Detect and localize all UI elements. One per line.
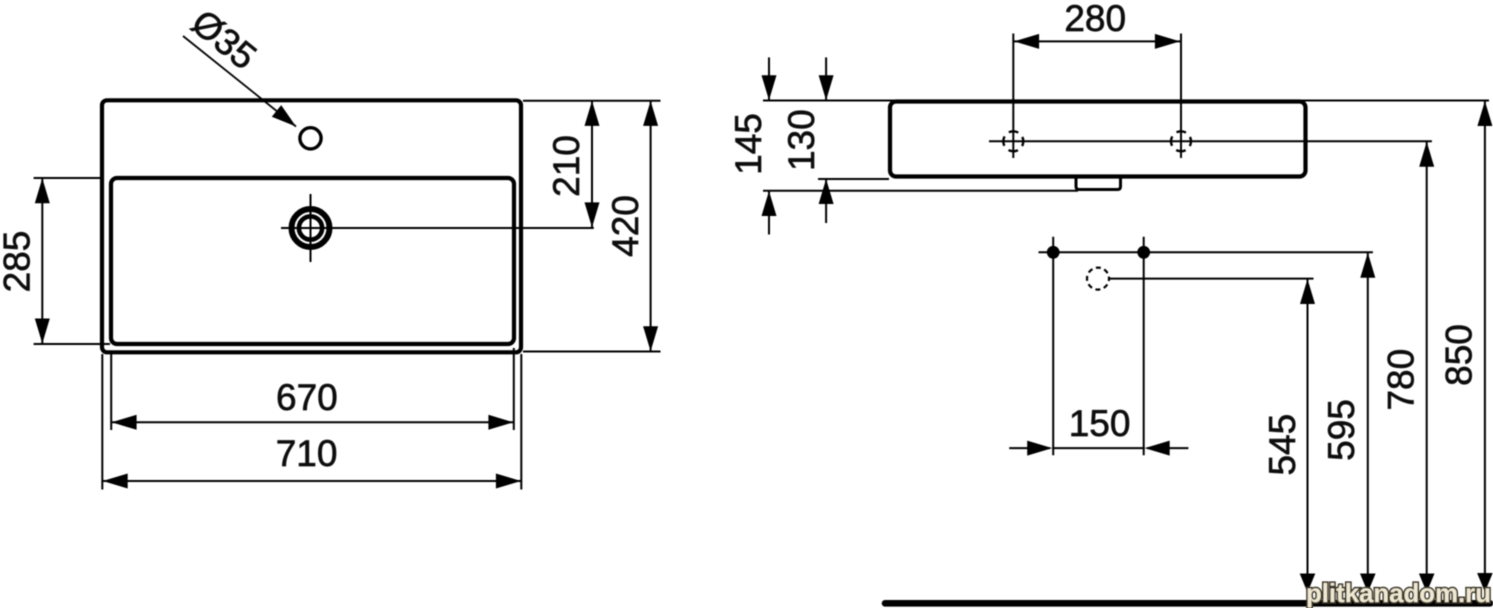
drain outer circle	[292, 209, 330, 247]
extension line below basin inner-right	[513, 348, 515, 430]
dim 145 lower tail	[768, 191, 770, 235]
extension line below basin far-right	[520, 354, 522, 490]
dim 150 right arrow	[1147, 447, 1189, 449]
dim line 780	[1426, 142, 1428, 590]
dim 150 connecting line	[1052, 447, 1145, 449]
dim 130 lower tail	[825, 179, 827, 223]
svg-text:420: 420	[605, 195, 646, 257]
dim 145 upper tail	[768, 57, 770, 100]
dim line 670	[112, 421, 513, 423]
svg-text:710: 710	[276, 433, 338, 474]
leader arrowhead	[272, 105, 296, 126]
faucet hole	[300, 128, 321, 149]
svg-text:210: 210	[546, 135, 587, 197]
hole dashed circle left	[1003, 131, 1023, 151]
svg-text:130: 130	[781, 109, 822, 171]
dim 150 left arrow	[1009, 447, 1050, 449]
basin side profile	[890, 102, 1306, 177]
svg-text:780: 780	[1381, 349, 1422, 411]
ledge reference line	[763, 190, 1078, 192]
mounting dot left	[1047, 246, 1060, 259]
basin bottom reference line	[818, 178, 889, 180]
dim line 285	[41, 179, 43, 344]
dim line 850	[1484, 101, 1486, 590]
extension line below basin inner-left	[110, 354, 112, 430]
hole dashed circle right	[1171, 131, 1191, 151]
dot extension line right	[1143, 237, 1145, 455]
svg-text:280: 280	[1064, 0, 1126, 39]
svg-text:plitkanadom.ru: plitkanadom.ru	[1306, 578, 1491, 608]
dim 130 upper tail	[825, 57, 827, 100]
drain centerline vertical	[310, 194, 312, 262]
dashed outlet circle	[1087, 268, 1109, 290]
extension line 285 bottom	[34, 343, 110, 345]
svg-text:285: 285	[0, 231, 37, 293]
holes horizontal centerline	[989, 140, 1432, 142]
drain tab	[1076, 177, 1121, 190]
leader line Ø35	[183, 36, 296, 127]
dim line 280	[1014, 40, 1180, 42]
outlet horizontal line	[1110, 278, 1314, 280]
basin outer rim	[102, 100, 521, 352]
floor line	[885, 600, 1490, 607]
svg-text:545: 545	[1262, 414, 1303, 476]
extension line bottom right	[523, 351, 661, 353]
extension line top right	[523, 100, 661, 102]
mounting dot right	[1137, 246, 1150, 259]
svg-text:670: 670	[276, 377, 338, 418]
hole centerline left	[1012, 34, 1014, 159]
extension line 285 top	[34, 177, 103, 179]
dots horizontal line	[1039, 251, 1373, 253]
dim line 710	[103, 480, 521, 482]
hole centerline right	[1180, 34, 1182, 159]
drain inner circle	[299, 216, 322, 239]
dim line 420	[650, 102, 652, 351]
dim line 210	[591, 102, 593, 228]
extension line below basin far-left	[101, 354, 103, 490]
dot extension line left	[1052, 237, 1054, 455]
drain centerline horizontal	[281, 227, 594, 229]
svg-text:595: 595	[1321, 399, 1362, 461]
basin inner rim	[111, 178, 514, 344]
dim line 595	[1367, 253, 1369, 590]
svg-text:150: 150	[1069, 403, 1131, 444]
dim line 545	[1307, 279, 1309, 590]
svg-text:850: 850	[1439, 324, 1480, 386]
top reference line	[763, 100, 1489, 102]
svg-text:145: 145	[728, 113, 769, 175]
